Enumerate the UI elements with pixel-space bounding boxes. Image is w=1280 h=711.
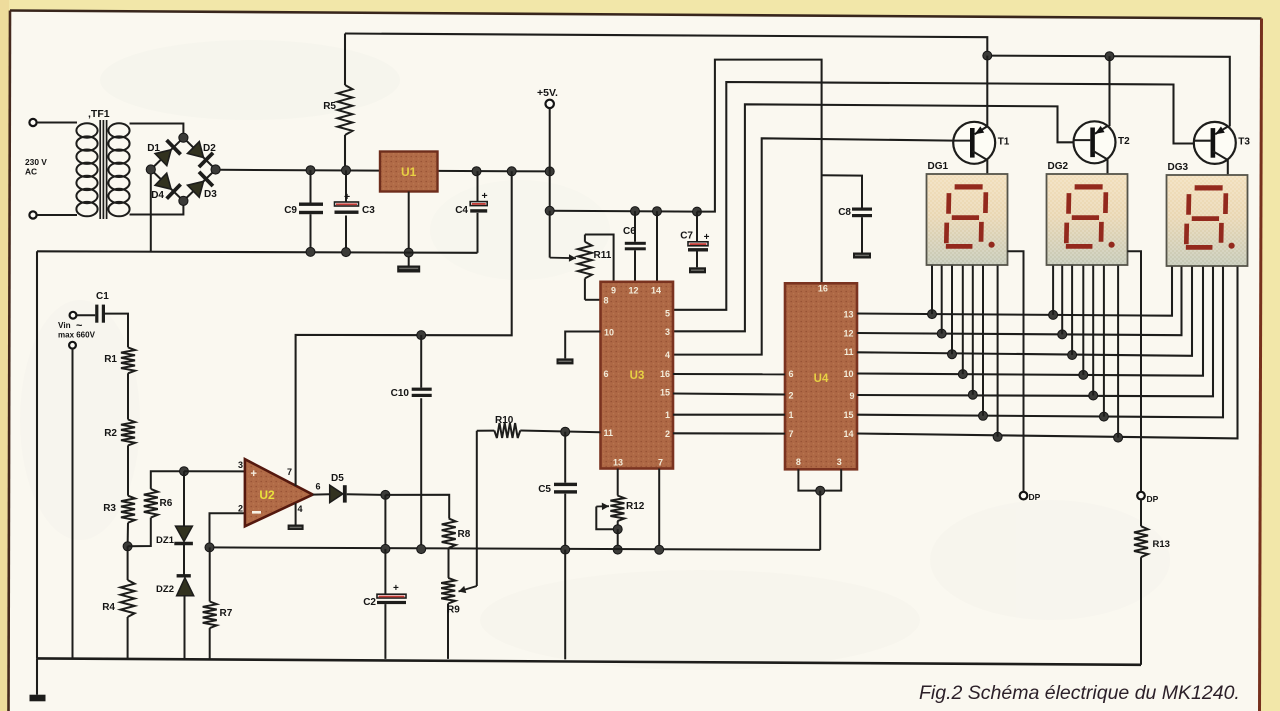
junction xyxy=(545,206,554,215)
resistor R1 xyxy=(121,347,135,373)
wire xyxy=(37,122,77,124)
junction xyxy=(123,542,132,551)
wire bridge arm D2 xyxy=(183,138,215,170)
junction xyxy=(1058,330,1067,339)
svg-text:4: 4 xyxy=(665,350,670,360)
svg-text:C9: C9 xyxy=(284,205,297,216)
seven segment display DG2 xyxy=(1047,174,1128,265)
svg-text:R10: R10 xyxy=(495,415,514,426)
wire DG2 segment pin 1 xyxy=(1052,266,1054,315)
terminal Vin top xyxy=(70,312,77,319)
svg-text:4: 4 xyxy=(298,504,303,514)
capacitor C6 xyxy=(634,211,636,242)
svg-text:DZ1: DZ1 xyxy=(156,535,175,546)
junction xyxy=(1099,412,1108,421)
wire U4 pin 13 segment bus xyxy=(857,267,1172,316)
wire top rail to T2 T3 emitters xyxy=(987,56,1230,127)
junction xyxy=(968,390,977,399)
ground U2 pin4 xyxy=(288,525,304,531)
wire xyxy=(448,548,450,578)
junction xyxy=(1079,370,1088,379)
svg-text:D2: D2 xyxy=(203,143,216,154)
junction xyxy=(693,207,702,216)
terminal AC input top xyxy=(29,119,36,126)
svg-text:C5: C5 xyxy=(538,484,551,495)
wire U3 pin1 to U4 pin1 xyxy=(673,414,785,416)
junction xyxy=(979,411,988,420)
junction xyxy=(507,167,516,176)
wire DG2 segment pin 3 xyxy=(1071,266,1073,355)
wire T3 collector to DG3 xyxy=(1227,160,1229,175)
svg-text:U2: U2 xyxy=(259,488,275,502)
svg-text:C10: C10 xyxy=(391,388,410,399)
wire R4 to ground bus xyxy=(127,617,129,659)
svg-text:3: 3 xyxy=(665,327,670,337)
junction xyxy=(417,331,426,340)
junction xyxy=(1068,351,1077,360)
wire U3 pin2 to U4 pin7 xyxy=(673,432,785,434)
wire U3 pin10 to ground xyxy=(565,332,600,359)
svg-text:C7: C7 xyxy=(680,231,693,242)
wire U4 pin 9 segment bus xyxy=(857,267,1213,397)
junction xyxy=(928,310,937,319)
seven segment display DG3 xyxy=(1167,175,1248,266)
trimmer R12 xyxy=(610,496,624,522)
svg-text:R6: R6 xyxy=(160,498,173,509)
svg-text:14: 14 xyxy=(843,429,853,439)
wire R10 to U3 pin11 xyxy=(520,431,600,433)
svg-text:3: 3 xyxy=(238,460,243,470)
svg-text:R9: R9 xyxy=(447,605,460,616)
wire R11 wiper from +5V xyxy=(549,211,551,258)
svg-text:+: + xyxy=(704,232,710,243)
wire U1 ground xyxy=(408,192,410,266)
wire xyxy=(127,523,129,547)
wire DG2 segment pin 5 xyxy=(1092,266,1094,396)
wire C5 column to ground bus xyxy=(564,550,566,660)
svg-text:C8: C8 xyxy=(838,207,851,218)
junction xyxy=(545,167,554,176)
svg-text:1: 1 xyxy=(665,410,670,420)
svg-text:15: 15 xyxy=(843,410,853,420)
junction xyxy=(983,51,992,60)
junction xyxy=(1089,391,1098,400)
wire U3 pin7 down to mid bus xyxy=(658,469,660,550)
wire T2 collector to DG2 xyxy=(1106,159,1108,174)
resistor R5 xyxy=(344,34,346,86)
junction xyxy=(381,490,390,499)
junction xyxy=(342,166,351,175)
wire xyxy=(127,445,129,495)
wire bridge arm D3 xyxy=(183,170,215,201)
ground main xyxy=(30,695,46,702)
svg-text:Fig.2 Schéma électrique du MK1: Fig.2 Schéma électrique du MK1240. xyxy=(919,682,1240,704)
capacitor C10 xyxy=(420,335,422,388)
wire DG2 segment pin 2 xyxy=(1061,266,1063,335)
svg-text:+: + xyxy=(344,191,350,203)
junction xyxy=(993,432,1002,441)
frame border top xyxy=(10,11,1262,19)
diode D2 xyxy=(188,142,204,158)
wire U3 pin15 to U4 pin2 xyxy=(673,394,785,395)
svg-text:2: 2 xyxy=(789,391,794,401)
wire DC rail from bridge to U1 xyxy=(220,169,381,172)
wire Vin bottom to ground bus xyxy=(72,349,74,659)
svg-text:9: 9 xyxy=(849,391,854,401)
svg-text:13: 13 xyxy=(843,310,853,320)
svg-text:DG2: DG2 xyxy=(1048,161,1069,172)
diode D1 xyxy=(155,150,171,166)
terminal DP1 xyxy=(1020,492,1028,500)
wire bridge left node down to lower rail xyxy=(150,174,152,252)
svg-text:7: 7 xyxy=(287,467,292,477)
junction xyxy=(653,207,662,216)
node bridge right xyxy=(211,165,220,174)
wire U4 pin8/3 down to mid bus xyxy=(819,491,821,550)
zener diode DZ1 xyxy=(183,471,185,526)
wire R12 wiper xyxy=(596,507,617,530)
wire xyxy=(130,124,184,136)
svg-text:R11: R11 xyxy=(594,250,612,261)
wire U4 pin 11 segment bus xyxy=(857,267,1192,356)
svg-text:8: 8 xyxy=(796,457,801,467)
svg-text:AC: AC xyxy=(25,167,37,177)
svg-text:3: 3 xyxy=(837,457,842,467)
wire U4 pin 15 segment bus xyxy=(857,267,1223,418)
svg-text:14: 14 xyxy=(651,286,661,296)
wire +5V vertical to rail xyxy=(549,171,551,210)
capacitor C2 xyxy=(384,549,386,594)
wire U3 pin5 to T3 base xyxy=(673,82,1194,310)
junction xyxy=(381,544,390,553)
junction xyxy=(404,248,413,257)
wire T2 emitter vertical xyxy=(1108,56,1110,126)
label U2 minus input xyxy=(252,511,261,514)
resistor R4 xyxy=(121,580,135,617)
junction xyxy=(180,467,189,476)
capacitor C9 xyxy=(310,170,312,202)
wire R12 to mid bus xyxy=(617,529,619,549)
svg-text:6: 6 xyxy=(316,482,321,492)
resistor R13 xyxy=(1140,500,1142,527)
terminal +5V xyxy=(546,100,554,108)
paper tint blotches xyxy=(20,40,1170,670)
zener diode DZ2 xyxy=(177,574,191,577)
svg-text:T1: T1 xyxy=(998,136,1010,147)
wire +5V terminal down xyxy=(549,108,551,171)
svg-text:7: 7 xyxy=(789,429,794,439)
wire R9 to ground bus xyxy=(447,604,449,659)
svg-text:DG3: DG3 xyxy=(1168,162,1189,173)
wire ground bus xyxy=(37,658,1141,664)
wire +5V rail xyxy=(550,210,697,213)
junction xyxy=(655,545,664,554)
junction xyxy=(1049,310,1058,319)
wire U2 pin3 wire xyxy=(184,470,245,472)
wire lower supply rail xyxy=(37,251,478,253)
junction xyxy=(561,427,570,436)
junction xyxy=(342,248,351,257)
op-amp U2 xyxy=(245,459,313,526)
junction xyxy=(417,545,426,554)
terminal DP2 xyxy=(1137,492,1145,500)
svg-text:U4: U4 xyxy=(814,373,829,385)
terminal AC input bottom xyxy=(29,211,36,218)
wire U2 pin2 node xyxy=(210,513,245,547)
svg-text:C3: C3 xyxy=(362,205,375,216)
svg-text:+: + xyxy=(482,190,488,202)
svg-text:9: 9 xyxy=(611,286,616,296)
svg-text:DZ2: DZ2 xyxy=(156,584,174,595)
wire DG1 segment pin 5 xyxy=(972,266,974,395)
wire +5V top rail to T1 emitter xyxy=(345,34,987,56)
capacitor C8 xyxy=(822,175,862,207)
wire +5V bracket to U4 pin 16 xyxy=(697,60,822,284)
svg-text:R12: R12 xyxy=(626,501,645,512)
wire C2 column xyxy=(384,495,386,549)
wire D5 node to R8 xyxy=(385,495,449,519)
svg-text:10: 10 xyxy=(604,328,614,338)
svg-text:D4: D4 xyxy=(151,190,164,201)
svg-text:12: 12 xyxy=(628,286,638,296)
wire mid ground bus xyxy=(210,547,821,550)
wire DG2 segment pin 4 xyxy=(1082,266,1084,375)
junction xyxy=(1114,433,1123,442)
frame border right xyxy=(1260,19,1262,711)
svg-text:12: 12 xyxy=(843,329,853,339)
wire xyxy=(127,373,129,419)
svg-text:T2: T2 xyxy=(1118,136,1130,147)
svg-text:16: 16 xyxy=(660,369,670,379)
svg-text:R5: R5 xyxy=(323,101,336,112)
trimmer R11 xyxy=(578,242,592,279)
capacitor C7 xyxy=(696,212,698,242)
wire U3 pin14 to +5V rail xyxy=(656,211,658,282)
svg-text:U3: U3 xyxy=(630,370,645,382)
capacitor C5 xyxy=(564,432,566,483)
svg-text:16: 16 xyxy=(818,284,828,294)
junction xyxy=(937,329,946,338)
wire ground stub xyxy=(36,658,38,694)
junction xyxy=(472,167,481,176)
junction xyxy=(561,545,570,554)
resistor R8 xyxy=(442,518,456,548)
svg-text:R13: R13 xyxy=(1153,539,1170,550)
page background left edge xyxy=(0,0,9,711)
terminal Vin bottom xyxy=(69,342,76,349)
wire DG1 segment pin 3 xyxy=(951,266,953,355)
svg-text:R7: R7 xyxy=(220,608,233,619)
svg-text:11: 11 xyxy=(844,347,854,357)
transformer TF1 xyxy=(76,120,129,219)
wire xyxy=(76,314,95,316)
wire bridge arm D4 xyxy=(151,170,184,201)
wire DG1 segment pin 4 xyxy=(962,266,964,375)
wire U4 pin 12 segment bus xyxy=(857,267,1182,336)
svg-text:5: 5 xyxy=(665,308,670,318)
svg-text:,TF1: ,TF1 xyxy=(88,108,110,120)
svg-text:C1: C1 xyxy=(96,291,109,302)
junction xyxy=(631,207,640,216)
IC U4 xyxy=(785,283,857,469)
svg-text:+: + xyxy=(393,583,399,594)
wire xyxy=(130,203,184,215)
capacitor C4 xyxy=(477,171,479,201)
seven segment display DG1 xyxy=(927,174,1008,265)
svg-text:D1: D1 xyxy=(147,143,160,154)
ground U3 pin10 xyxy=(557,358,574,364)
wire DG2 segment pin 7 xyxy=(1117,266,1119,438)
IC U3 xyxy=(601,282,674,469)
wire DG2 segment pin 6 xyxy=(1103,266,1105,417)
svg-text:8: 8 xyxy=(604,296,609,306)
junction xyxy=(958,370,967,379)
junction xyxy=(1105,52,1114,61)
svg-text:+: + xyxy=(251,468,257,480)
transistor T2 xyxy=(1074,121,1116,163)
svg-text:C6: C6 xyxy=(623,226,636,237)
svg-text:R3: R3 xyxy=(103,503,116,514)
wire DG1 segment pin 6 xyxy=(982,266,984,416)
diode D4 xyxy=(155,173,171,189)
svg-text:DP: DP xyxy=(1147,494,1159,504)
junction xyxy=(613,525,622,534)
junction xyxy=(613,545,622,554)
svg-text:1: 1 xyxy=(789,410,794,420)
wire T1 emitter vertical xyxy=(986,56,988,126)
ground C7 xyxy=(689,267,706,273)
wire DG1 segment pin 7 xyxy=(997,266,999,437)
junction xyxy=(306,166,315,175)
svg-text:6: 6 xyxy=(604,369,609,379)
svg-text:13: 13 xyxy=(613,458,623,468)
resistor R2 xyxy=(121,420,135,446)
svg-text:C2: C2 xyxy=(363,597,376,608)
resistor R6 xyxy=(128,518,151,547)
wire DG1 segment pin 2 xyxy=(941,266,943,334)
capacitor C3 xyxy=(345,170,347,202)
svg-text:C4: C4 xyxy=(455,205,468,216)
wire xyxy=(37,214,77,216)
wire U2 pin7 supply xyxy=(296,171,512,486)
svg-text:10: 10 xyxy=(843,369,853,379)
ground U1 xyxy=(397,266,420,273)
wire bridge arm D1 xyxy=(151,138,184,170)
svg-text:D3: D3 xyxy=(204,189,217,200)
wire U3 pin4 to T1 base xyxy=(673,138,953,354)
svg-text:D5: D5 xyxy=(331,473,344,484)
voltage regulator U1 xyxy=(380,152,438,192)
svg-text:Vin: Vin xyxy=(58,321,71,330)
svg-text:R2: R2 xyxy=(104,428,117,439)
wire DG1 decimal point line xyxy=(1008,251,1024,491)
diode D5 xyxy=(313,493,330,495)
wire U4 pin 14 segment bus xyxy=(857,267,1238,439)
junction xyxy=(948,350,957,359)
svg-text:7: 7 xyxy=(658,458,663,468)
svg-text:15: 15 xyxy=(660,388,670,398)
svg-text:R8: R8 xyxy=(458,529,471,540)
node bridge left xyxy=(146,165,155,174)
svg-text:6: 6 xyxy=(789,369,794,379)
frame border left xyxy=(9,11,11,711)
svg-text:T3: T3 xyxy=(1238,136,1250,147)
svg-text:11: 11 xyxy=(604,428,614,438)
node bridge bottom xyxy=(179,196,188,205)
junction xyxy=(816,486,825,495)
diode D3 xyxy=(188,181,204,197)
wire U3 pin13 to R12 xyxy=(617,469,619,496)
svg-text:+5V.: +5V. xyxy=(537,87,558,99)
svg-text:DG1: DG1 xyxy=(928,161,949,172)
svg-text:max 660V: max 660V xyxy=(58,331,96,340)
resistor R7 xyxy=(209,547,211,601)
transistor T3 xyxy=(1194,122,1236,164)
trimmer R9 xyxy=(441,578,455,604)
wire T1 collector to DG1 xyxy=(986,160,988,175)
svg-text:2: 2 xyxy=(665,429,670,439)
capacitor C1 xyxy=(95,305,98,323)
node bridge top xyxy=(179,133,188,142)
wire U4 pins 8 and 3 join xyxy=(798,469,841,490)
junction xyxy=(306,247,315,256)
wire U1 output rail xyxy=(438,170,550,173)
wire xyxy=(105,314,128,348)
wire left rail down to ground bus xyxy=(36,251,38,658)
wire DG2 decimal point line xyxy=(1128,251,1142,491)
svg-text:R1: R1 xyxy=(104,354,117,365)
wire xyxy=(127,546,129,580)
svg-text:230 V: 230 V xyxy=(25,157,47,167)
svg-text:DP: DP xyxy=(1029,492,1041,502)
wire DG1 segment pin 1 xyxy=(931,266,933,315)
wire R10 wiper to R9 xyxy=(476,431,478,586)
wire U3 pin3 to T2 base xyxy=(673,104,1074,331)
svg-text:2: 2 xyxy=(238,504,243,514)
ground C8 xyxy=(853,253,871,259)
svg-text:R4: R4 xyxy=(102,602,115,613)
wire U3 pin16 to U4 pin6 xyxy=(673,373,785,375)
wire U2 pin4 ground xyxy=(295,503,297,525)
transistor T1 xyxy=(953,122,995,164)
resistor R10 xyxy=(477,430,495,432)
resistor R3 xyxy=(121,496,135,523)
junction xyxy=(205,543,214,552)
wire U4 pin 10 segment bus xyxy=(857,267,1203,376)
svg-text:U1: U1 xyxy=(401,165,417,179)
